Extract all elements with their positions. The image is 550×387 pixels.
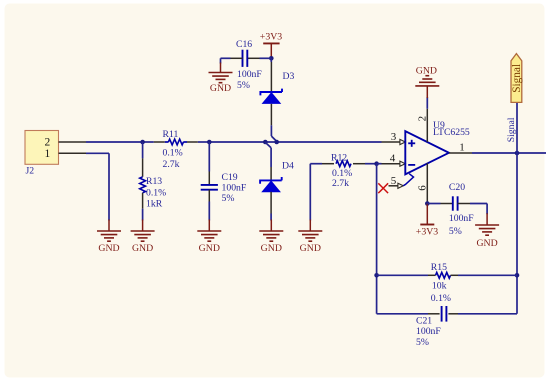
node: inverting input / feedback junction (374, 161, 379, 166)
svg-text:R13: R13 (146, 176, 162, 187)
svg-text:2: 2 (416, 116, 428, 122)
C20 designator label (449, 182, 465, 193)
svg-text:2.7k: 2.7k (163, 159, 180, 170)
wire: C16 to ground (221, 58, 231, 63)
svg-text:Signal: Signal (511, 64, 523, 93)
capacitor C21 (428, 306, 458, 322)
R12 value label (332, 178, 349, 189)
op-amp U9 pin 6 (426, 163, 428, 203)
svg-text:2: 2 (45, 137, 51, 149)
node: D4 rail junction (263, 140, 268, 145)
wire: D4 to ground (270, 214, 272, 221)
svg-text:R15: R15 (431, 262, 447, 273)
ground GND (C19) (197, 231, 221, 254)
svg-text:10k: 10k (432, 280, 447, 291)
R11 value label (163, 159, 180, 170)
svg-text:1: 1 (45, 148, 51, 160)
op-amp U9 pin 2 (426, 109, 428, 142)
ground stub (pin 2) (426, 86, 428, 98)
no-ERC cross on pin 5 (378, 183, 388, 193)
diode D3 (260, 62, 282, 125)
ground stub (C16) (220, 63, 222, 73)
wire: feedback node down (left) (376, 164, 378, 314)
op-amp U9 body (405, 131, 449, 174)
node: C19 tap junction (207, 140, 212, 145)
wire: R15 right (458, 274, 517, 276)
svg-text:R12: R12 (331, 152, 347, 163)
wire: output node down (right) (516, 153, 518, 314)
svg-text:0.1%: 0.1% (146, 187, 166, 198)
port Signal (511, 54, 523, 103)
J2 designator label (26, 166, 35, 177)
U9 designator label (433, 120, 445, 131)
R12 designator label (331, 152, 347, 163)
svg-text:GND: GND (199, 243, 220, 254)
ground GND (R12) (298, 231, 322, 254)
wire: C21 loop left (377, 313, 428, 315)
op-amp U9 pin 4 (382, 161, 406, 166)
R13 designator label (146, 176, 162, 187)
svg-text:4: 4 (390, 153, 396, 165)
resistor R13 (140, 158, 146, 208)
C21 value label (416, 326, 441, 337)
svg-text:0.1%: 0.1% (431, 293, 451, 304)
svg-text:100nF: 100nF (449, 213, 474, 224)
wire: supply junction to C20 (427, 203, 440, 205)
wire: R15 left (377, 274, 428, 276)
op-amp U9 pin 1 (449, 152, 472, 154)
wire: R13 to ground (142, 209, 144, 221)
svg-text:GND: GND (416, 65, 437, 76)
wire: rail jog to D4 (265, 142, 271, 167)
wire: pin 2 to ground (426, 97, 428, 109)
svg-text:C20: C20 (449, 182, 465, 193)
power +3V3 (below op-amp) (416, 204, 438, 238)
connector J2 (25, 131, 59, 165)
ground GND (R13) (131, 231, 155, 254)
resistor R11 (154, 139, 198, 145)
svg-text:1kR: 1kR (146, 198, 163, 209)
node: R15 right junction (515, 273, 520, 278)
svg-text:5%: 5% (222, 193, 235, 204)
U9 part number label (433, 127, 470, 138)
wire: output node up to port (516, 102, 518, 153)
svg-text:GND: GND (98, 243, 119, 254)
node: R15 left junction (374, 273, 379, 278)
svg-text:C16: C16 (236, 39, 252, 50)
svg-text:+3V3: +3V3 (260, 32, 282, 43)
wire: junction to D3 (270, 58, 272, 62)
wire: C21 loop right (458, 313, 517, 315)
svg-text:LTC6255: LTC6255 (433, 127, 470, 138)
ground GND (J2 pin1) (97, 231, 121, 254)
J2 pin 1 number (45, 148, 51, 160)
svg-text:GND: GND (261, 243, 282, 254)
wire: output to right edge (472, 152, 546, 154)
C19 designator label (222, 172, 238, 183)
op-amp plus sign (408, 140, 415, 147)
wire: D3 to rail jog (271, 125, 276, 141)
wire: diode node to op-amp pin 3 (265, 141, 381, 143)
C20 value label (449, 213, 474, 224)
wire: R12 left to ground drop (310, 164, 322, 221)
svg-text:GND: GND (300, 243, 321, 254)
pin 4 number (390, 153, 396, 165)
capacitor C16 (231, 50, 260, 67)
R13 value label (146, 198, 163, 209)
D3 designator label (283, 71, 295, 82)
diode D4 (260, 167, 282, 214)
svg-text:C21: C21 (416, 316, 432, 327)
resistor R12 (322, 161, 365, 167)
ground GND (D4) (259, 231, 283, 254)
wire: C20 to ground (470, 204, 487, 215)
svg-text:100nF: 100nF (222, 183, 247, 194)
ground stub (C20) (486, 213, 488, 225)
C21 designator label (416, 316, 432, 327)
R15 designator label (431, 262, 447, 273)
svg-text:5: 5 (391, 175, 397, 187)
wire: C19 to ground (208, 202, 210, 221)
wire: feedback node to op-amp pin 4 (377, 163, 382, 165)
R12 tolerance label (332, 168, 352, 179)
C19 tolerance label (222, 193, 235, 204)
ground stub (R13) (142, 220, 144, 232)
D4 designator label (282, 161, 294, 172)
wire: rail to C19 (208, 142, 210, 172)
ground stub (J2 pin1) (108, 220, 110, 232)
wire: rail to R13 (142, 142, 144, 158)
svg-text:C19: C19 (222, 172, 238, 183)
svg-text:+3V3: +3V3 (416, 226, 438, 237)
wire: R12 to feedback node (365, 163, 377, 165)
wire: J2 pin1 to ground drop (86, 153, 109, 220)
wire: R11 to C19 node (198, 141, 210, 143)
wire: junction to C16 (260, 57, 272, 59)
op-amp U9 pin 3 (382, 139, 406, 144)
node: R13 tap junction (140, 140, 145, 145)
op-amp minus sign (408, 164, 415, 166)
C21 tolerance label (416, 337, 429, 348)
svg-text:Signal: Signal (506, 117, 517, 142)
node: supply junction (425, 201, 430, 206)
wire: J2 pin2 to R13 node (86, 141, 143, 143)
svg-text:1: 1 (459, 142, 465, 154)
C19 value label (222, 183, 247, 194)
pin 3 number (391, 131, 397, 143)
svg-text:R11: R11 (163, 129, 179, 140)
node: D3 rail junction (274, 140, 279, 145)
pin 5 number (391, 175, 397, 187)
node: output junction (515, 151, 520, 156)
C16 tolerance label (237, 80, 250, 91)
C16 designator label (236, 39, 252, 50)
svg-text:0.1%: 0.1% (163, 147, 183, 158)
node: +3V3 / C16 / D3 junction (269, 56, 274, 61)
svg-text:J2: J2 (26, 166, 35, 177)
ground GND (C20) (475, 225, 499, 249)
ground GND (C16) (209, 73, 233, 94)
wire: R13 node to R11 (143, 141, 154, 143)
net label Signal (506, 117, 517, 142)
svg-text:GND: GND (132, 243, 153, 254)
capacitor C20 (441, 196, 471, 210)
power +3V3 (top) (260, 32, 282, 59)
capacitor C19 (201, 172, 218, 202)
J2 pin 2 lead (59, 141, 87, 143)
pin 1 number (459, 142, 465, 154)
ground stub (D4) (270, 220, 272, 232)
R15 value label (432, 280, 447, 291)
wire: C19 node to diode node (209, 141, 265, 143)
svg-text:100nF: 100nF (237, 69, 262, 80)
ground GND (above op-amp) (415, 65, 439, 86)
svg-text:D3: D3 (283, 71, 295, 82)
R11 designator label (163, 129, 179, 140)
pin 2 number (416, 116, 428, 122)
svg-text:2.7k: 2.7k (332, 178, 349, 189)
svg-text:5%: 5% (449, 226, 462, 237)
R13 tolerance label (146, 187, 166, 198)
J2 pin 1 lead (59, 152, 87, 154)
svg-text:100nF: 100nF (416, 326, 441, 337)
R11 tolerance label (163, 147, 183, 158)
svg-text:GND: GND (476, 238, 497, 249)
svg-text:5%: 5% (237, 80, 250, 91)
R15 tolerance label (431, 293, 451, 304)
resistor R15 (428, 272, 458, 278)
pin 5 bent lead (403, 174, 413, 186)
J2 pin 2 number (45, 137, 51, 149)
svg-text:3: 3 (391, 131, 397, 143)
ground stub (C19) (208, 220, 210, 232)
C20 tolerance label (449, 226, 462, 237)
svg-text:5%: 5% (416, 337, 429, 348)
pin 6 number (416, 185, 428, 191)
svg-text:D4: D4 (282, 161, 294, 172)
C16 value label (237, 69, 262, 80)
svg-text:GND: GND (210, 83, 231, 94)
op-amp U9 pin 5 (389, 183, 404, 188)
svg-text:6: 6 (416, 185, 428, 191)
ground stub (R12) (309, 220, 311, 232)
